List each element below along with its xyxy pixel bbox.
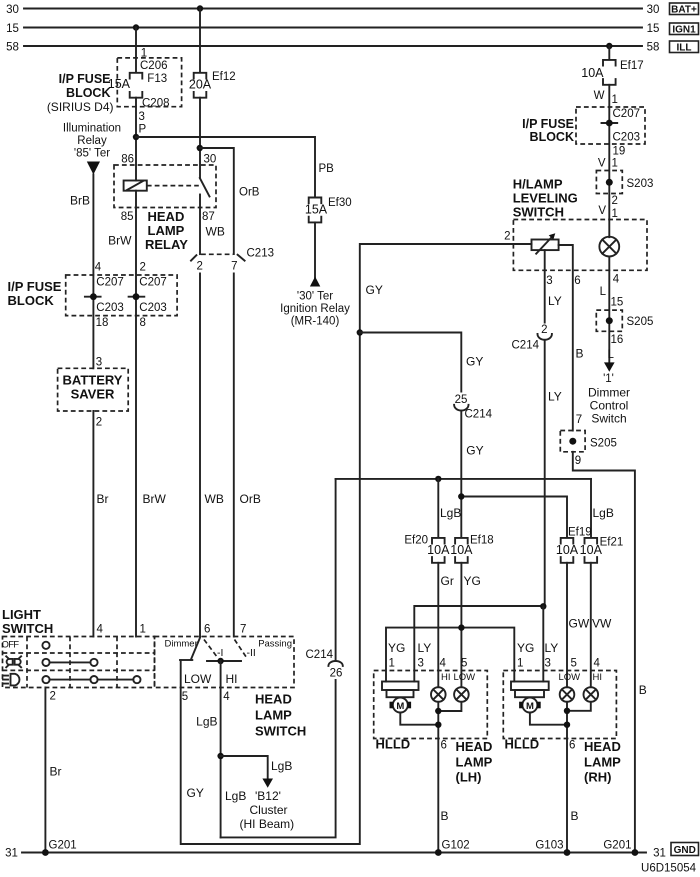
svg-text:18: 18 [96,317,109,329]
I/P fuse block (SIRIUS D4) dashed box [47,58,182,114]
svg-text:GY: GY [466,444,483,458]
wire LY down to RH pin 3 [542,606,544,681]
svg-text:5: 5 [182,691,188,703]
svg-text:1: 1 [612,158,618,170]
svg-text:HLLD: HLLD [376,737,411,752]
svg-text:LgB: LgB [225,789,246,803]
svg-text:10A: 10A [556,543,579,557]
head lamp relay dashed box [114,165,216,208]
svg-text:LgB: LgB [196,715,217,729]
fuse Ef12 20A [189,71,236,98]
wire branch to B12 arrow [221,756,268,779]
wire LgB up from C214-26 [335,479,337,661]
wire Gr Ef20 to LH HI lamp [437,563,439,687]
svg-text:1: 1 [517,658,523,670]
svg-text:Ef18: Ef18 [470,535,494,547]
connector C207/C203 splice on BrW [129,277,167,315]
HEAD LAMP SWITCH label [255,692,306,739]
wire WB resumes below C213 [199,273,201,636]
svg-text:HLLD: HLLD [505,737,540,752]
wire: Ef12 to relay contact [199,98,201,178]
svg-text:'1': '1' [603,373,614,385]
svg-text:LY: LY [548,390,562,404]
svg-text:1: 1 [140,624,146,636]
svg-text:3: 3 [546,275,552,287]
LH leveling actuator HLLD [382,682,419,713]
svg-text:1: 1 [612,208,618,220]
RH internal wires [530,702,591,853]
svg-text:LAMP: LAMP [148,223,185,238]
connector C214 pin 25 [454,394,492,421]
fuse Ef20 10A [404,535,450,563]
svg-text:B: B [571,809,579,823]
svg-text:C203: C203 [613,132,641,144]
arrow from illumination relay [87,162,100,175]
wire pot wiper LY down [544,250,546,322]
wire: 15 line down to fuse F13 [135,28,137,73]
svg-text:V: V [598,158,606,170]
svg-text:GW: GW [569,617,590,631]
wire to Ef20 [437,479,439,538]
svg-text:S205: S205 [590,438,617,450]
leveling switch dashed box [513,220,647,271]
svg-text:7: 7 [576,414,582,426]
svg-text:16: 16 [611,334,624,346]
svg-text:HI: HI [226,672,238,686]
wire Ef17 to leveling lamp [608,85,610,237]
node LH lamp common [435,708,441,714]
svg-text:G103: G103 [535,840,563,852]
svg-text:6: 6 [574,275,580,287]
svg-text:L: L [600,286,607,298]
svg-text:31: 31 [653,848,666,860]
svg-text:F13: F13 [147,73,167,85]
svg-text:B: B [576,347,584,361]
leveling indicator lamp [599,237,619,257]
wire 58 line down to Ef17 [608,46,610,60]
GY feed rail to Ef19 [461,497,567,538]
svg-text:(LH): (LH) [456,770,482,785]
svg-text:4: 4 [594,658,601,670]
svg-text:6: 6 [569,740,575,752]
RH leveling actuator HLLD [511,682,549,713]
LY rail to both lamps pin3 [414,606,543,682]
terminal box BAT+ [670,3,699,16]
wire: 30 line down to fuse Ef12 [199,9,201,73]
svg-text:Passing: Passing [258,639,292,650]
svg-text:4: 4 [223,691,230,703]
wire: junction to OrB drop [200,148,234,254]
svg-text:S203: S203 [627,178,654,190]
svg-text:I/P FUSE: I/P FUSE [59,72,111,86]
svg-text:OrB: OrB [240,492,261,506]
I/P fuse block dashed box (left) [8,275,178,316]
svg-text:LIGHT: LIGHT [2,607,41,622]
svg-text:YG: YG [464,574,481,588]
svg-text:10A: 10A [581,66,604,80]
light switch contacts [42,642,140,684]
svg-text:HI: HI [593,672,603,683]
fuse Ef21 10A [580,537,624,563]
H/LAMP LEVELING SWITCH label [513,177,578,220]
svg-text:C214: C214 [465,409,493,421]
I/P fuse block dashed box (right) [522,107,645,144]
svg-text:19: 19 [613,146,626,158]
connector C207/C203 splice [602,108,641,144]
svg-text:HEAD: HEAD [456,739,493,754]
YG rail to both lamps pin1 [386,628,514,682]
wire LOW pin5 GY down-right-up [181,244,532,844]
svg-text:10A: 10A [580,543,603,557]
svg-text:4: 4 [95,262,102,274]
svg-text:9: 9 [575,455,581,467]
svg-text:C214: C214 [306,649,334,661]
fuse Ef18 10A [450,535,493,563]
terminal box ILL [670,41,699,54]
svg-text:C214: C214 [512,340,540,352]
svg-text:G102: G102 [442,840,470,852]
svg-text:4: 4 [97,624,104,636]
node: tap on line 30 for Ef12 [197,5,203,11]
svg-text:2: 2 [541,324,547,336]
svg-text:VW: VW [592,617,612,631]
wire Br battery saver to light switch [92,411,94,637]
svg-text:V: V [598,205,606,217]
svg-text:SWITCH: SWITCH [255,724,306,739]
svg-text:Br: Br [50,765,62,779]
svg-text:20A: 20A [189,78,212,92]
svg-text:BAT+: BAT+ [671,5,697,16]
node LY junction [540,603,546,609]
svg-text:2: 2 [612,195,618,207]
splice S205 lower [560,431,617,452]
svg-text:RELAY: RELAY [145,237,188,252]
svg-text:BLOCK: BLOCK [66,86,110,100]
ground rail 31 [5,848,666,860]
svg-text:3: 3 [545,658,551,670]
wire BrB down from arrow [92,175,94,369]
arrow to dimmer control switch [604,362,615,371]
dimmer blade [180,637,201,661]
svg-text:HEAD: HEAD [148,209,185,224]
svg-text:C203: C203 [96,302,124,314]
'30' Ter Ignition Relay (MR-140) label [280,291,350,328]
node LgB branch to cluster [217,753,223,759]
svg-text:Ef12: Ef12 [212,71,236,83]
svg-text:LgB: LgB [593,506,614,520]
svg-text:C213: C213 [247,248,275,260]
ground G201 left [42,840,77,856]
svg-text:HEAD: HEAD [255,692,292,707]
bus line 30 [6,4,659,16]
svg-text:Gr: Gr [441,574,454,588]
svg-text:IGN1: IGN1 [672,25,696,36]
svg-text:LAMP: LAMP [255,708,292,723]
svg-text:BrB: BrB [70,194,90,208]
svg-text:Ignition Relay: Ignition Relay [280,303,350,315]
node GY junction [357,329,363,335]
arrow to B12 cluster [262,779,273,788]
LH LOW bulb [454,687,469,702]
connector C213 [191,248,274,273]
svg-text:WB: WB [205,492,224,506]
svg-text:31: 31 [5,848,18,860]
svg-text:Ef30: Ef30 [328,197,352,209]
head lamp switch dashed box [155,637,295,688]
svg-text:3: 3 [418,658,424,670]
LH pin labels [388,641,467,670]
potentiometer [532,233,559,253]
svg-text:LY: LY [548,294,562,308]
bus line 58 [6,42,659,54]
svg-text:ILL: ILL [677,43,692,54]
node RH lamp common [564,708,570,714]
node: tap on line 15 for F13 [133,24,139,30]
wire GY branch to C214-25 [360,333,462,392]
Illumination Relay '85' Ter label [63,123,121,160]
svg-text:Illumination: Illumination [63,123,121,135]
svg-text:LY: LY [545,641,559,655]
svg-text:OrB: OrB [239,187,260,199]
svg-text:15: 15 [6,23,19,35]
svg-text:1: 1 [389,658,395,670]
svg-text:GY: GY [466,355,483,369]
svg-text:-II: -II [247,647,256,659]
wire VW Ef21 to RH HI lamp [590,563,592,687]
svg-text:C207: C207 [139,277,167,289]
svg-text:1: 1 [612,94,618,106]
LH internal wires [400,702,461,853]
svg-text:G201: G201 [603,840,631,852]
svg-text:PB: PB [319,163,335,175]
wire: P junction to PB corner [136,137,315,197]
svg-text:3: 3 [139,111,145,123]
relay coil [124,181,147,191]
svg-text:2: 2 [139,262,145,274]
svg-text:HEAD: HEAD [584,739,621,754]
svg-text:6: 6 [441,740,447,752]
dashed link coil to contact [147,185,199,187]
svg-text:2: 2 [50,691,56,703]
fuse F13 15A [108,73,170,110]
svg-text:7: 7 [231,261,237,273]
svg-text:15: 15 [647,23,660,35]
svg-text:C207: C207 [96,277,124,289]
svg-text:Control: Control [590,399,629,413]
node relay 30 junction [197,145,203,151]
node YG junction [458,624,464,630]
svg-text:30: 30 [204,154,217,166]
svg-text:3: 3 [96,357,102,369]
'1' Dimmer Control Switch label [588,373,630,426]
svg-text:Dimmer: Dimmer [588,386,630,400]
svg-text:LOW: LOW [559,672,581,683]
svg-text:C207: C207 [613,108,641,120]
terminal box IGN1 [670,23,699,36]
svg-text:GY: GY [366,283,383,297]
connector C214 pin 26 [306,649,343,680]
svg-text:85: 85 [121,211,134,223]
ground G201 right [603,840,638,856]
HI contact bar [207,660,241,662]
relay contact blade [200,178,210,254]
svg-text:Ef17: Ef17 [620,60,644,72]
RH LOW bulb [560,687,575,702]
svg-text:2: 2 [196,261,202,273]
wire GW Ef19 to RH LOW lamp [566,563,568,687]
node RH motor common [564,722,570,728]
svg-text:C206: C206 [140,60,168,72]
wire LgB bottom run to C214-26 [221,680,336,838]
dashed position I [204,640,223,660]
HEAD LAMP RELAY label [145,209,188,252]
dashed position II [235,640,256,660]
wire to Ef21 [590,479,592,538]
svg-text:4: 4 [440,658,447,670]
svg-text:C208: C208 [142,98,170,110]
node Ef19 tap [458,493,464,499]
LIGHT SWITCH label [2,607,53,636]
node P junction [133,134,139,140]
svg-text:15: 15 [611,297,624,309]
svg-text:2: 2 [96,417,102,429]
svg-text:SAVER: SAVER [71,387,115,402]
svg-text:15A: 15A [108,77,131,91]
svg-text:Br: Br [97,492,109,506]
svg-text:7: 7 [240,624,246,636]
svg-text:10A: 10A [450,543,473,557]
svg-text:-I: -I [217,647,223,659]
fuse Ef17 10A [581,60,643,85]
node Ef20 tap [435,476,441,482]
svg-text:H/LAMP: H/LAMP [513,177,563,192]
connector C207/C203 splice on BrB [85,277,124,315]
svg-text:I/P FUSE: I/P FUSE [8,279,62,294]
LH HI bulb [431,687,446,702]
wire YG Ef18 down [460,563,462,687]
svg-text:M: M [396,701,404,712]
fuse Ef30 15A [305,197,352,222]
fuse Ef19 10A [556,527,592,563]
svg-text:Ef19: Ef19 [568,527,592,539]
svg-text:OFF: OFF [2,640,20,651]
svg-text:30: 30 [6,4,19,16]
svg-text:GND: GND [674,845,696,856]
svg-text:BLOCK: BLOCK [530,130,574,144]
svg-text:58: 58 [647,42,660,54]
svg-text:YG: YG [517,641,534,655]
svg-text:W: W [594,90,605,102]
wire below Ef30 [314,222,316,277]
ground G103 [535,840,570,856]
svg-text:BLOCK: BLOCK [8,293,55,308]
parking lamps icon [6,656,21,667]
wire LY resumes [544,340,546,607]
svg-text:4: 4 [613,274,620,286]
svg-text:2: 2 [504,231,510,243]
battery saver dashed box [58,368,129,411]
node: tap on line 58 for Ef17 [606,43,612,49]
svg-text:YG: YG [388,641,405,655]
wire pot to pin 6 [559,245,573,431]
svg-text:B: B [441,809,449,823]
svg-text:5: 5 [461,658,467,670]
light switch dashed box [3,637,155,688]
svg-text:LOW: LOW [184,672,212,686]
svg-text:Relay: Relay [77,135,107,147]
head lamp LH dashed box [374,671,488,739]
wire pin2 to G201 [44,688,46,853]
svg-text:LgB: LgB [271,759,292,773]
'B12' Cluster (HI Beam) label [240,789,295,831]
svg-text:SWITCH: SWITCH [513,205,564,220]
svg-text:30: 30 [647,4,660,16]
LgB feed rail [336,478,591,480]
splice S203 [596,171,653,194]
svg-text:S205: S205 [627,316,654,328]
terminal box GND [671,843,699,856]
RH pin labels [517,641,601,670]
wire lamp to dimmer control [608,257,610,363]
svg-text:LOW: LOW [454,672,476,683]
svg-text:6: 6 [204,624,210,636]
svg-text:LAMP: LAMP [584,755,621,770]
connector C214 pin 2 [512,324,552,352]
svg-text:Ef21: Ef21 [600,537,624,549]
svg-text:(RH): (RH) [584,770,611,785]
wire GY resumes to Ef18 [460,411,462,538]
svg-text:BATTERY: BATTERY [63,373,123,388]
svg-text:Ef20: Ef20 [404,535,428,547]
svg-text:'B12': 'B12' [255,789,281,803]
svg-text:L: L [608,349,615,361]
svg-text:P: P [139,124,147,136]
svg-text:5: 5 [571,658,577,670]
svg-text:Dimmer: Dimmer [165,639,198,650]
svg-text:I/P FUSE: I/P FUSE [522,117,574,131]
arrow to ignition relay [310,277,320,287]
svg-text:U6D15054: U6D15054 [641,863,697,875]
wire: F13 to P junction [135,98,137,181]
HEAD LAMP (LH) label [456,739,493,785]
node HI junction [217,658,223,664]
splice S205 [596,310,653,331]
RH HI bulb [584,687,599,702]
head lamp RH dashed box [503,671,616,739]
svg-text:GY: GY [187,786,204,800]
bus line 15 [6,23,659,35]
svg-text:Switch: Switch [591,412,626,426]
svg-text:15A: 15A [305,202,328,216]
svg-text:(SIRIUS D4): (SIRIUS D4) [47,100,114,114]
svg-text:8: 8 [139,317,145,329]
svg-text:'30' Ter: '30' Ter [297,291,333,303]
svg-text:LY: LY [418,641,432,655]
HEAD LAMP (RH) label [584,739,621,785]
svg-text:BrW: BrW [108,234,132,248]
svg-text:HI: HI [441,672,451,683]
svg-text:B: B [639,683,647,697]
svg-text:G201: G201 [49,840,77,852]
svg-text:BrW: BrW [143,492,167,506]
svg-text:87: 87 [202,211,215,223]
svg-text:SWITCH: SWITCH [2,621,53,636]
svg-text:LgB: LgB [440,506,461,520]
svg-text:58: 58 [6,42,19,54]
svg-text:25: 25 [455,394,468,406]
svg-text:LEVELING: LEVELING [513,191,578,206]
svg-text:'85' Ter: '85' Ter [74,148,110,160]
